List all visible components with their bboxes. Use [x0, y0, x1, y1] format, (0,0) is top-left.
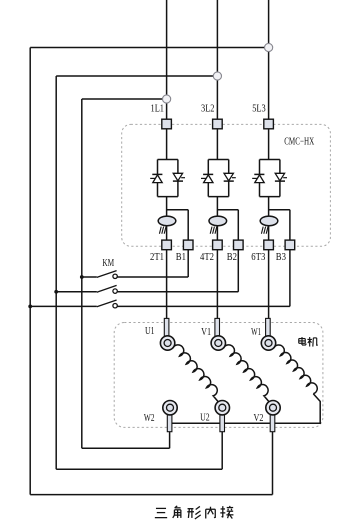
motor terminal W1 (lug) — [261, 318, 275, 350]
wire U2 stem down to delta return — [221, 432, 223, 470]
wire delta return to U2 : horizontal y=469.2 — [56, 468, 222, 470]
wire internal bypass drop to B2 — [237, 210, 239, 241]
wire W2 stem down to delta return — [169, 432, 171, 449]
wire 6T3 down to motor — [268, 250, 270, 319]
thyristor SCR3 (conducting upward, left branch) — [201, 160, 213, 197]
wire 2T1 down to motor — [166, 250, 168, 319]
terminal 5L3 (input square) — [264, 119, 274, 129]
caption 三角形内接 (delta internal connection) — [155, 506, 234, 519]
current transformer CT3 — [260, 216, 278, 226]
wire thyristor output down, node split to B2 — [216, 197, 218, 241]
wire bypass/return vertical x=56.2 — [55, 76, 57, 469]
wire thyristor output down, node split to B1 — [166, 197, 168, 241]
svg-text:6T3: 6T3 — [251, 252, 265, 263]
terminal B1 (bypass square) — [183, 240, 193, 250]
svg-text:U1: U1 — [145, 326, 155, 337]
wire thyristor bottom bar — [260, 196, 280, 198]
thyristor SCR5 (conducting upward, left branch) — [252, 160, 264, 197]
wire supply phase 5L3 vertical from top — [268, 0, 270, 119]
wire 3L2 terminal to thyristor pair — [216, 129, 218, 160]
terminal 4T2 (output square) — [213, 240, 223, 250]
CT2 secondary leads (three ticks) — [210, 227, 217, 234]
motor enclosure (dashed box) — [114, 323, 323, 428]
terminal 3L2 (input square) — [213, 119, 223, 129]
wire bypass/return vertical x=81.8 — [81, 99, 83, 448]
soft starter enclosure CMC-HX (dashed box) — [122, 124, 331, 246]
svg-text:2T1: 2T1 — [150, 252, 164, 263]
current transformer CT1 — [158, 216, 176, 226]
svg-text:B1: B1 — [176, 252, 186, 263]
terminal 6T3 (output square) — [264, 240, 274, 250]
winding U1-U2 (motor coil) — [173, 345, 218, 402]
svg-text:1L1: 1L1 — [151, 104, 165, 115]
svg-text:3L2: 3L2 — [201, 104, 215, 115]
terminal B2 (bypass square) — [234, 240, 244, 250]
wire delta return to V2 : horizontal y=494.6 — [30, 494, 272, 496]
node junction on 3L2 at tap — [213, 72, 221, 80]
wire supply phase 3L2 vertical from top — [216, 0, 218, 119]
wire bypass tap from 1L1 : horizontal y=99.0 — [82, 98, 167, 100]
wire 4T2 down to motor — [216, 250, 218, 319]
winding W1-W2 (motor coil) — [172, 345, 320, 423]
wire B3 down to KM contact — [289, 250, 291, 307]
wire thyristor top bar — [260, 159, 280, 161]
wire supply phase 1L1 vertical from top — [166, 0, 168, 119]
current transformer CT2 — [209, 216, 227, 226]
wire thyristor top bar — [158, 159, 178, 161]
winding V1-V2 (motor coil) — [224, 345, 269, 402]
wire bypass/return vertical x=30.2 — [29, 48, 31, 495]
thyristor SCR6 (conducting downward, right branch) — [275, 160, 287, 197]
motor terminal U2 (lug) — [215, 401, 229, 470]
label 电机 (motor) — [299, 337, 318, 347]
wire 1L1 terminal to thyristor pair — [166, 129, 168, 160]
wire delta return to W2 : horizontal y=448.3 — [82, 447, 170, 449]
node junction on 5L3 at tap — [163, 95, 171, 103]
motor terminal V2 (lug) — [266, 401, 280, 495]
svg-text:4T2: 4T2 — [200, 252, 214, 263]
wire bypass tap from 5L3 : horizontal y=47.5 — [30, 47, 268, 49]
wire V2 stem down to delta return — [272, 432, 274, 495]
contactor KM pole 1 — [80, 271, 188, 279]
terminal 2T1 (output square) — [162, 240, 172, 250]
motor terminal W2 (lug) — [163, 401, 177, 449]
thyristor SCR1 (conducting upward, left branch) — [150, 160, 162, 197]
wire bypass tap from 3L2 : horizontal y=76.0 — [56, 75, 217, 77]
svg-text:CMC−HX: CMC−HX — [284, 136, 314, 147]
contactor KM pole 2 — [54, 285, 238, 293]
svg-text:5L3: 5L3 — [252, 104, 266, 115]
thyristor SCR4 (conducting downward, right branch) — [224, 160, 236, 197]
wire thyristor bottom bar — [208, 196, 228, 198]
svg-text:W1: W1 — [251, 327, 261, 338]
terminal 1L1 (input square) — [162, 119, 172, 129]
wire thyristor output down, node split to B3 — [268, 197, 270, 241]
contactor KM pole 3 — [28, 300, 290, 308]
motor terminal U1 (lug) — [160, 318, 174, 350]
wire thyristor top bar — [208, 159, 228, 161]
svg-text:B3: B3 — [276, 252, 286, 263]
motor terminal V1 (lug) — [211, 318, 225, 350]
wire B1 down to KM contact — [187, 250, 189, 277]
CT3 secondary leads (three ticks) — [261, 227, 268, 234]
wire B2 down to KM contact — [237, 250, 239, 292]
svg-text:KM: KM — [102, 258, 114, 269]
svg-text:W2: W2 — [144, 413, 155, 424]
node junction on 1L1 at tap — [265, 43, 273, 51]
svg-text:V2: V2 — [254, 413, 264, 424]
thyristor SCR2 (conducting downward, right branch) — [173, 160, 185, 197]
wire thyristor bottom bar — [158, 196, 178, 198]
svg-text:U2: U2 — [200, 413, 210, 424]
CT1 secondary leads (three ticks) — [159, 227, 166, 234]
svg-text:B2: B2 — [227, 252, 237, 263]
wire internal bypass drop to B3 — [289, 210, 291, 241]
terminal B3 (bypass square) — [285, 240, 295, 250]
svg-text:V1: V1 — [201, 327, 211, 338]
wire internal bypass drop to B1 — [187, 210, 189, 241]
wire 5L3 terminal to thyristor pair — [268, 129, 270, 160]
